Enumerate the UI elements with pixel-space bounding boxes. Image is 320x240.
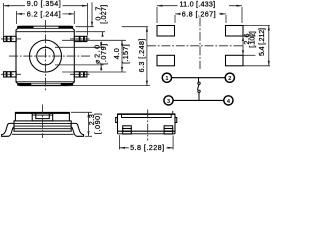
svg-text:6.3 [.248]: 6.3 [.248] bbox=[137, 39, 146, 73]
dimension 2.3 [.090] bbox=[71, 112, 92, 136]
base body bbox=[14, 121, 71, 131]
wire top bbox=[172, 77, 226, 79]
base seam lines bbox=[14, 124, 71, 129]
horizontal centerline bbox=[9, 55, 91, 57]
vertical centerline bbox=[45, 20, 47, 92]
dimension 0.7 [.027] bbox=[92, 2, 103, 36]
side view centerline bbox=[42, 105, 44, 139]
lead stack right bbox=[164, 126, 173, 129]
bottom terminal line bbox=[12, 133, 74, 135]
centerlines top view bbox=[1, 20, 91, 92]
dimension 5.4 [.212] bbox=[268, 26, 270, 66]
top view lead left-bottom bbox=[4, 72, 17, 77]
gull-wing lead left bbox=[2, 123, 14, 136]
svg-text:3: 3 bbox=[167, 99, 170, 105]
lead centerline right-top bbox=[70, 38, 90, 40]
top view outer circle bbox=[30, 40, 62, 72]
top view lead right-bottom bbox=[74, 72, 87, 77]
terminal T4 bbox=[224, 96, 233, 105]
pad top-left bbox=[157, 26, 175, 37]
bottom edge thick band with notch slot bbox=[17, 83, 73, 86]
terminal T3 bbox=[164, 96, 173, 105]
svg-text:6.2 [.244]: 6.2 [.244] bbox=[27, 9, 61, 18]
top view lead right-top bbox=[74, 36, 87, 41]
dimension 5.8 [.228] bbox=[119, 135, 173, 150]
top corner tick bbox=[172, 111, 174, 114]
gull-wing lead right bbox=[71, 123, 83, 136]
bottom edge bbox=[118, 130, 176, 132]
land pattern pads bbox=[157, 26, 243, 66]
dimension 4.0 [.157] bbox=[121, 40, 123, 72]
inner cover line bbox=[122, 114, 172, 117]
svg-text:4.0: 4.0 bbox=[112, 48, 121, 59]
end view (bottom right) bbox=[116, 111, 177, 134]
terminal T2 bbox=[225, 73, 234, 82]
svg-text:1: 1 bbox=[165, 76, 168, 82]
terminal T1 bbox=[162, 73, 171, 82]
lead centerline left-top bbox=[1, 38, 21, 40]
top view lead left-top bbox=[4, 36, 17, 41]
svg-text:[.157]: [.157] bbox=[121, 44, 130, 63]
wire bottom bbox=[173, 99, 224, 101]
svg-text:[.102]: [.102] bbox=[247, 31, 256, 48]
pad top-right bbox=[226, 26, 244, 37]
svg-text:6.8 [.267]: 6.8 [.267] bbox=[182, 10, 216, 19]
dimension 11.0 [.433] bbox=[157, 6, 242, 23]
end view centerline bbox=[147, 110, 149, 141]
side ear left bbox=[116, 118, 118, 123]
cover outline bbox=[15, 112, 69, 120]
svg-text:5.4 [.212]: 5.4 [.212] bbox=[257, 28, 266, 56]
top view cover seam top bbox=[16, 31, 74, 33]
svg-text:5.8 [.228]: 5.8 [.228] bbox=[130, 143, 164, 152]
dimension 9.0 [.354] bbox=[4, 3, 88, 36]
dimension dia 2.0 [.079] bbox=[100, 42, 102, 71]
top view body outline bbox=[16, 26, 74, 85]
body outline bbox=[118, 114, 176, 134]
top view inner circle (button) bbox=[37, 47, 55, 65]
svg-text:2: 2 bbox=[228, 76, 231, 82]
pad bottom-right bbox=[226, 55, 244, 66]
top edge thick band with notch slot bbox=[17, 26, 73, 29]
lead centerline left-bottom bbox=[1, 73, 21, 75]
extension lines right of top view bbox=[55, 27, 150, 86]
svg-text:[.090]: [.090] bbox=[93, 113, 102, 134]
land pattern extension lines right bbox=[244, 26, 271, 66]
lead stack left bbox=[123, 126, 132, 129]
lead centerline right-bottom bbox=[70, 73, 90, 75]
dimension 6.3 [.248] bbox=[146, 27, 148, 86]
svg-text:9.0 [.354]: 9.0 [.354] bbox=[27, 0, 61, 8]
svg-text:[.079]: [.079] bbox=[99, 44, 108, 65]
actuator recess mid line bbox=[32, 114, 53, 116]
switch contact bbox=[197, 78, 200, 101]
dimension 6.8 [.267] bbox=[175, 14, 226, 23]
actuator recess outer bbox=[32, 112, 53, 121]
seating line bbox=[118, 133, 176, 135]
side view (front) bbox=[2, 112, 84, 136]
dimension 2.6 [.102] bbox=[242, 36, 244, 55]
top view cover seam bottom bbox=[16, 81, 74, 83]
side ear right bbox=[175, 118, 177, 123]
svg-text:11.0 [.433]: 11.0 [.433] bbox=[180, 0, 216, 9]
top edge thick bbox=[118, 113, 176, 115]
pad bottom-left bbox=[157, 55, 175, 66]
dimension 6.2 [.244] bbox=[16, 11, 74, 24]
land pattern centerlines bbox=[147, 18, 243, 70]
actuator recess inner bbox=[36, 112, 50, 118]
svg-text:[.027]: [.027] bbox=[99, 5, 108, 24]
cover plate thick edge bbox=[15, 112, 69, 114]
